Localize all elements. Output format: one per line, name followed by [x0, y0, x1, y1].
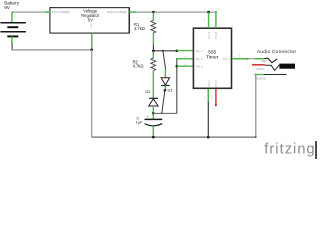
diode D2	[149, 97, 158, 99]
svg-text:Pin 7: Pin 7	[196, 49, 203, 53]
svg-text:1µF: 1µF	[136, 120, 144, 125]
node: pin 2 junction	[176, 65, 179, 68]
wire: to 555 pin 6	[177, 58, 193, 60]
op 555 timer U1 box	[193, 28, 231, 88]
svg-text:Pin 8: Pin 8	[214, 32, 218, 39]
node A: R1 bottom junction	[152, 50, 155, 53]
wire: sleeve down to ground rail	[255, 75, 257, 138]
resistor R2	[152, 51, 154, 58]
wire: riser up to pin 2 / pin 6	[176, 59, 178, 114]
svg-text:Timer: Timer	[206, 55, 219, 61]
wire: top rail battery to regulator	[12, 11, 14, 13]
svg-text:Pin 5: Pin 5	[214, 80, 218, 87]
svg-text:output voltage: output voltage	[107, 10, 127, 14]
node: regulator gnd junction	[90, 49, 93, 52]
svg-text:gnd: gnd	[90, 23, 93, 28]
wire: diagonal from junction to diode D1	[163, 51, 166, 69]
svg-text:D2: D2	[145, 89, 151, 94]
svg-text:-: -	[155, 130, 156, 134]
capacitor C 1uF	[152, 113, 154, 118]
svg-text:RIGHT: RIGHT	[257, 67, 265, 71]
ground rail wire	[92, 136, 256, 138]
svg-text:9V: 9V	[4, 5, 11, 10]
battery negative pin	[11, 36, 13, 43]
svg-text:Pin 3: Pin 3	[223, 57, 230, 61]
svg-text:D1: D1	[168, 87, 174, 92]
regulator gnd pin	[91, 33, 93, 49]
battery positive pin	[11, 12, 13, 22]
battery symbol plates	[0, 22, 26, 24]
svg-text:Pin 1: Pin 1	[207, 80, 211, 87]
svg-text:4.7kΩ: 4.7kΩ	[133, 64, 144, 69]
node: 555 pin1 ground junction	[207, 136, 210, 139]
wire: diagonal from D1 to capacitor node	[162, 90, 165, 113]
svg-text:Pin 6: Pin 6	[196, 57, 203, 61]
node: 5V rail to pin4 junction	[207, 11, 210, 14]
wire: 555 pin 3 output	[232, 58, 248, 60]
wire: pin 4	[208, 12, 210, 28]
wire: pin 1 to ground	[207, 89, 209, 101]
wire: junction to 555 pin 7	[153, 50, 163, 52]
audio connector tip contact	[254, 58, 264, 60]
voltage regulator U2 box	[50, 8, 129, 33]
audio connector sleeve contact	[254, 74, 264, 76]
svg-text:SLEEVE: SLEEVE	[256, 77, 266, 81]
wire: pin 8	[215, 12, 217, 28]
svg-text:Pin 2: Pin 2	[196, 64, 203, 68]
wire: node B right to pin2/pin6 riser	[153, 112, 177, 114]
wire: to 555 pin 2	[177, 65, 193, 67]
svg-text:LEFT: LEFT	[261, 59, 268, 63]
resistor R1	[152, 11, 155, 14]
svg-text:+: +	[147, 115, 149, 119]
diode D1	[164, 69, 166, 78]
wire: pin 5 red stub	[215, 89, 217, 105]
svg-text:input voltage: input voltage	[52, 10, 70, 14]
node: cap ground junction	[152, 136, 155, 139]
node: D1 cathode junction	[164, 89, 167, 92]
window edge artifact	[315, 141, 317, 159]
wire: battery negative down and right to regulator gnd	[11, 44, 13, 50]
regulator input pin	[45, 11, 50, 13]
regulator output pin	[129, 11, 136, 13]
svg-text:4.7kΩ: 4.7kΩ	[134, 26, 145, 31]
audio connector plug bar	[279, 64, 295, 69]
svg-text:Pin 4: Pin 4	[207, 32, 211, 39]
audio connector ring contact	[265, 65, 280, 71]
svg-text:5V: 5V	[88, 17, 93, 22]
svg-text:fritzing: fritzing	[264, 142, 315, 158]
wire: gnd junction down to ground rail	[91, 50, 93, 137]
node B: capacitor top junction	[152, 112, 155, 115]
svg-text:Audio Connector: Audio Connector	[257, 49, 297, 55]
wire: red stub to ring contact	[252, 64, 265, 66]
wire: top 5V rail	[137, 11, 215, 13]
